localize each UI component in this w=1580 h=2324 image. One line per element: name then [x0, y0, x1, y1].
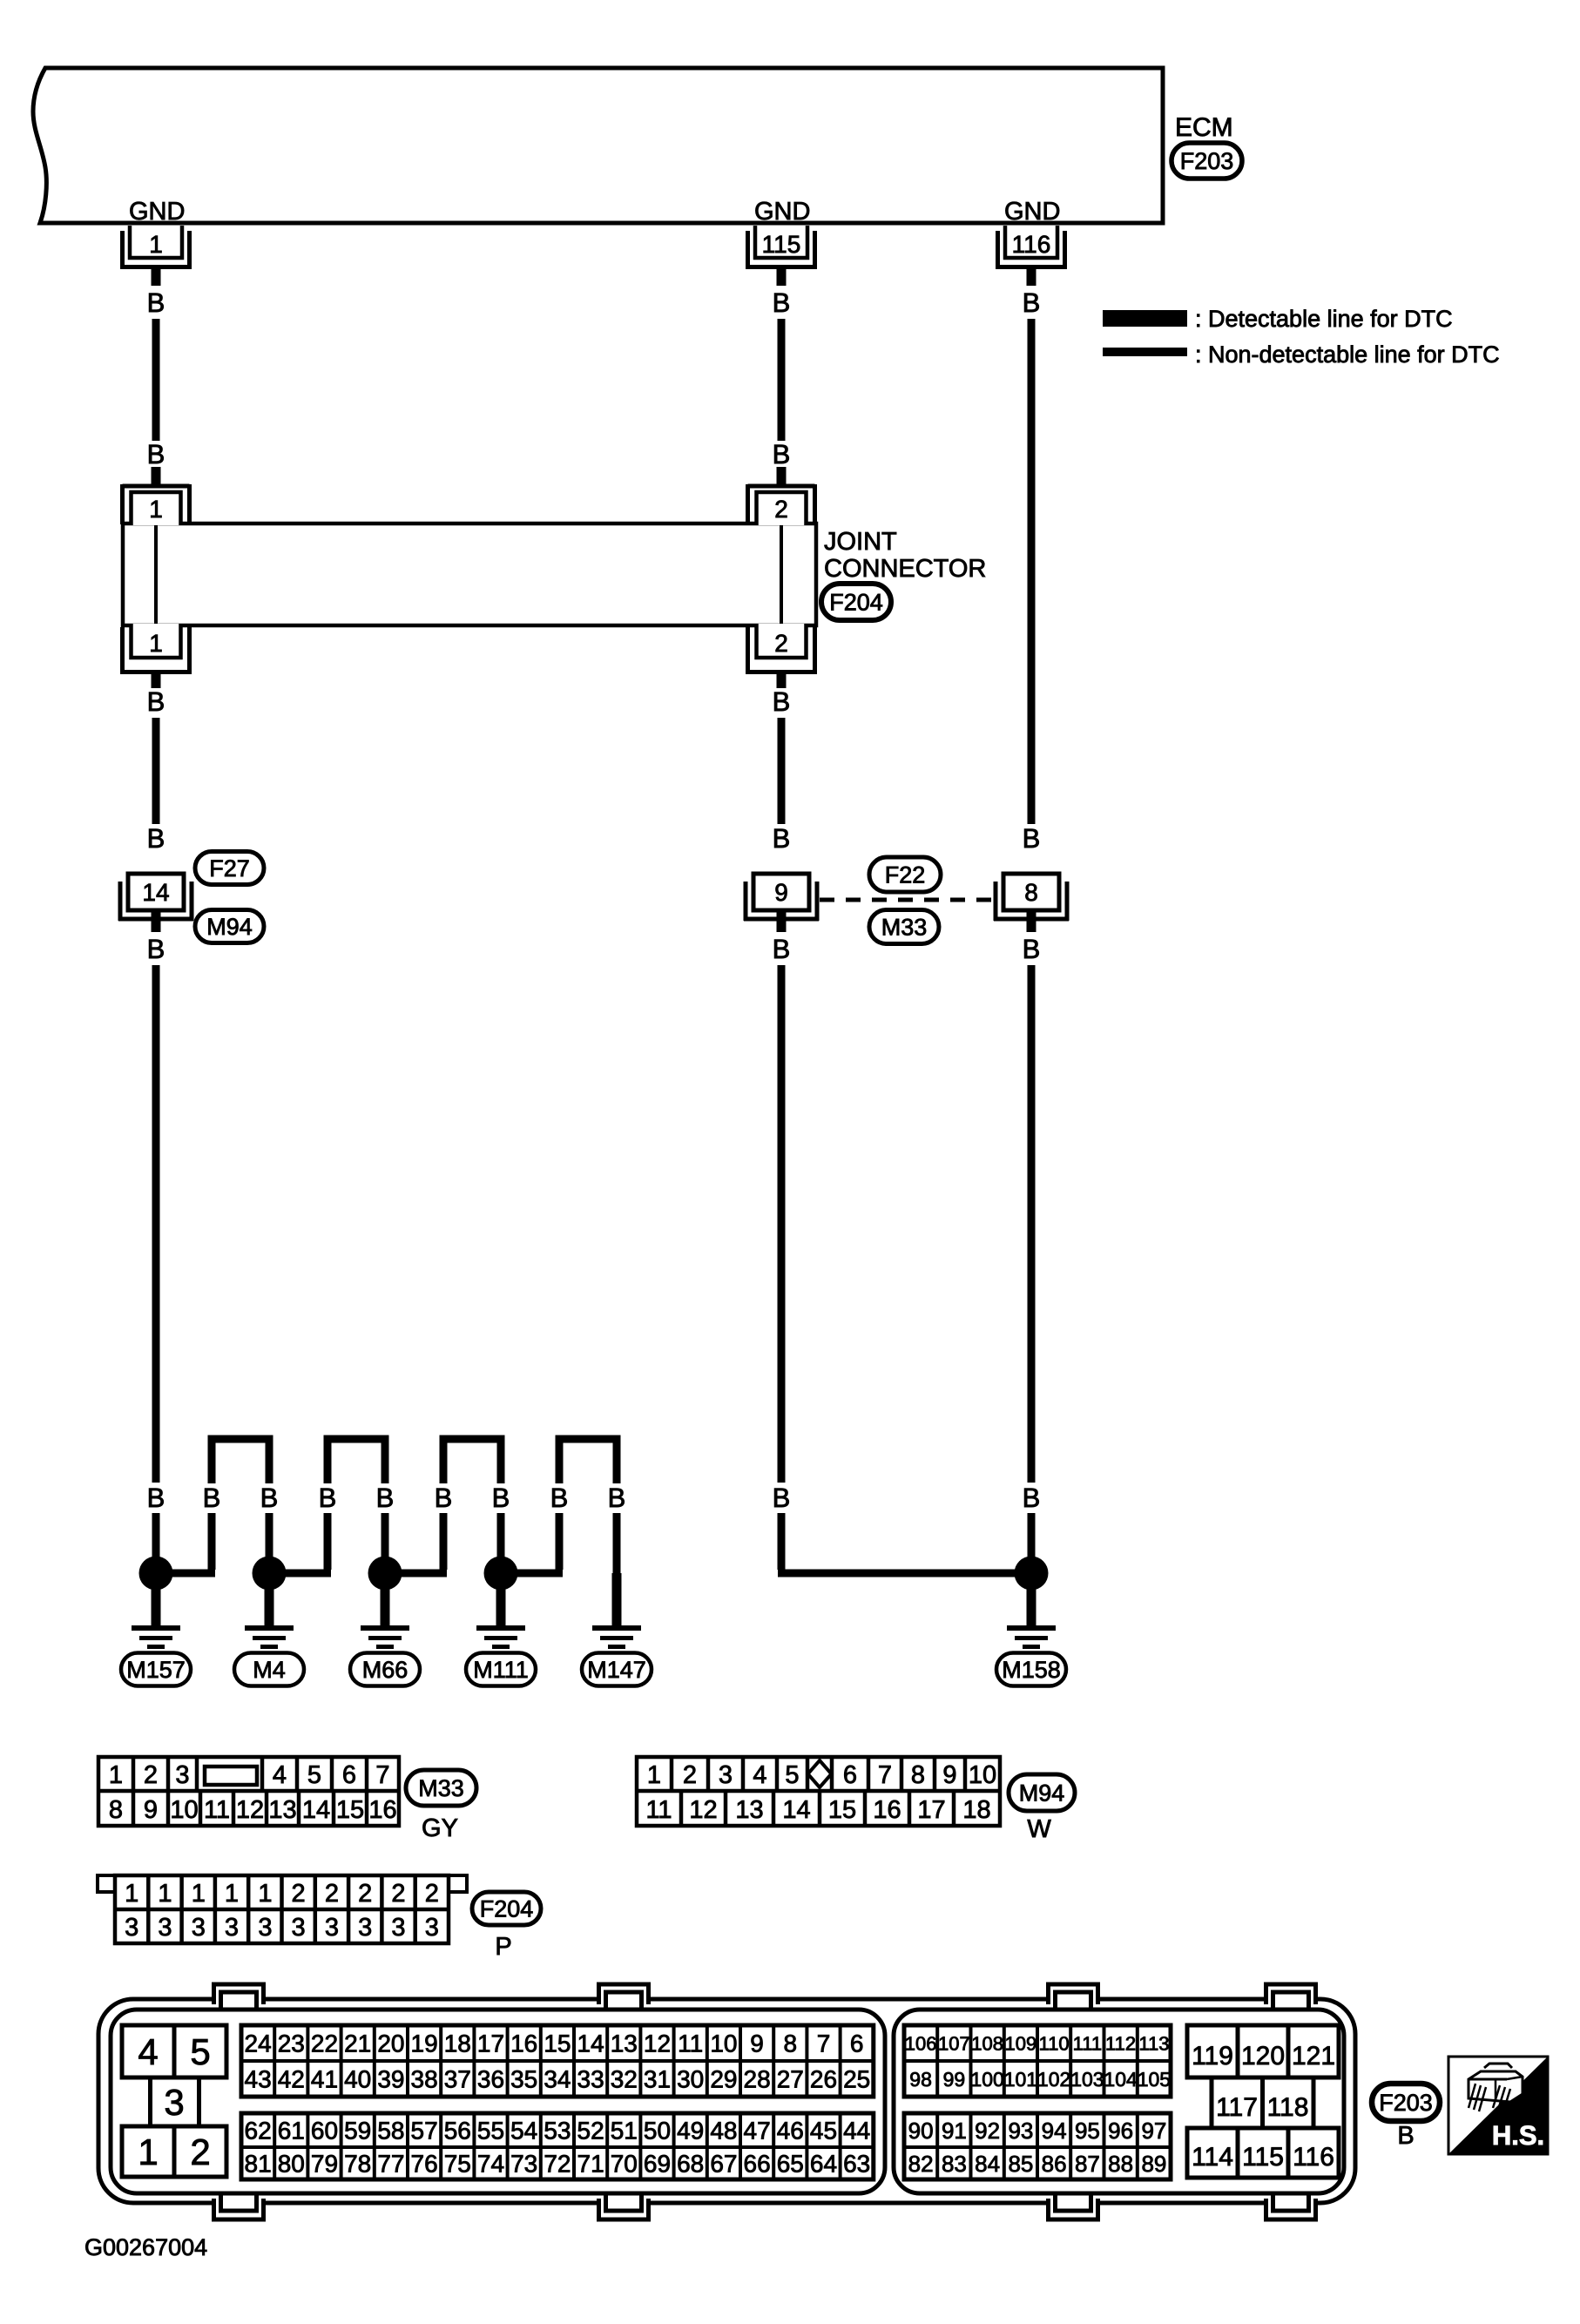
svg-text:B: B: [435, 1483, 453, 1513]
svg-text:17: 17: [917, 1796, 945, 1824]
svg-text:6: 6: [342, 1761, 356, 1789]
connector face view M94 (18-pin): [637, 1757, 1000, 1826]
svg-text:51: 51: [611, 2118, 638, 2145]
svg-text:2: 2: [425, 1880, 439, 1908]
junction node at ground M66: [368, 1557, 402, 1591]
svg-text:92: 92: [975, 2118, 1000, 2144]
svg-text:2: 2: [774, 630, 788, 657]
svg-text:9: 9: [144, 1796, 158, 1824]
svg-text:14: 14: [782, 1796, 810, 1824]
svg-text:33: 33: [577, 2066, 604, 2093]
svg-text:104: 104: [1104, 2068, 1138, 2091]
svg-text:114: 114: [1192, 2143, 1233, 2172]
svg-text:2: 2: [358, 1880, 372, 1908]
svg-text:P: P: [495, 1933, 511, 1961]
svg-text:102: 102: [1037, 2068, 1070, 2091]
F203 pin grid 82-97: [904, 2113, 1171, 2179]
svg-text:112: 112: [1105, 2032, 1136, 2054]
connector face view F203 (ECM, pictorial): [98, 1984, 1355, 2219]
svg-text:57: 57: [411, 2118, 438, 2145]
svg-text:1: 1: [149, 496, 163, 523]
ground connector label M111: [466, 1653, 536, 1686]
svg-text:3: 3: [158, 1914, 172, 1942]
svg-text:76: 76: [411, 2151, 438, 2178]
svg-text:2: 2: [683, 1761, 697, 1789]
ground M66: [361, 1573, 409, 1649]
wire segment (x=1184, ECM to connector F22 pin 8): [1028, 319, 1036, 824]
svg-text:73: 73: [510, 2151, 537, 2178]
svg-text:115: 115: [1242, 2143, 1284, 2172]
wire segment (x=179): [152, 718, 160, 824]
svg-text:10: 10: [170, 1796, 198, 1824]
svg-text:2: 2: [325, 1880, 339, 1908]
svg-text:15: 15: [336, 1796, 364, 1824]
svg-text:CONNECTOR: CONNECTOR: [824, 555, 986, 583]
svg-text:B: B: [773, 686, 791, 717]
svg-text:F203: F203: [1379, 2090, 1433, 2116]
wire segment to ground M111: [497, 1513, 505, 1574]
wire segment L-join to M4 node: [269, 1513, 331, 1573]
F203 pins 114-121 block: [1187, 2025, 1339, 2178]
svg-text:39: 39: [377, 2066, 404, 2093]
wire jumper staple 1: [212, 1439, 269, 1483]
svg-text:40: 40: [344, 2066, 371, 2093]
svg-text:98: 98: [909, 2068, 932, 2091]
svg-text:9: 9: [750, 2030, 764, 2057]
ground connector label M66: [350, 1653, 420, 1686]
svg-text:F22: F22: [885, 862, 926, 888]
svg-text:97: 97: [1141, 2118, 1166, 2144]
svg-text:3: 3: [358, 1914, 372, 1942]
svg-text:B: B: [773, 823, 791, 854]
svg-text:59: 59: [344, 2118, 371, 2145]
junction node at ground M158: [1015, 1557, 1049, 1591]
svg-text:M33: M33: [418, 1775, 464, 1801]
svg-text:121: 121: [1292, 2042, 1335, 2071]
ground connector label M158: [996, 1653, 1066, 1686]
svg-text:31: 31: [644, 2066, 671, 2093]
svg-text:H.S.: H.S.: [1492, 2120, 1544, 2151]
svg-text:115: 115: [762, 231, 801, 258]
svg-text:32: 32: [611, 2066, 638, 2093]
svg-text:28: 28: [744, 2066, 771, 2093]
svg-text:5: 5: [190, 2031, 210, 2072]
wire segment long (x=1184): [1028, 965, 1036, 1483]
svg-text:21: 21: [344, 2030, 371, 2057]
svg-text:3: 3: [175, 1761, 189, 1789]
wire segment L-join to M157 node: [156, 1513, 215, 1573]
dashed harness link F22/M33: [820, 898, 995, 902]
svg-text:10: 10: [710, 2030, 737, 2057]
joint connector F204 body: [123, 524, 816, 625]
F203 pins 1-5 block: [122, 2025, 226, 2177]
svg-text:B: B: [492, 1483, 510, 1513]
svg-text:M158: M158: [1002, 1657, 1061, 1683]
ground connector label M147: [582, 1653, 652, 1686]
svg-text:65: 65: [777, 2151, 804, 2178]
wire jumper staple 2: [327, 1439, 385, 1483]
wire segment to ground M147: [613, 1513, 621, 1628]
svg-text:103: 103: [1070, 2068, 1104, 2091]
svg-text:19: 19: [411, 2030, 438, 2057]
svg-text:7: 7: [878, 1761, 892, 1789]
ground connector label M157: [121, 1653, 191, 1686]
wire jumper staple 3: [443, 1439, 501, 1483]
svg-text:44: 44: [843, 2118, 870, 2145]
svg-text:3: 3: [325, 1914, 339, 1942]
svg-text:82: 82: [908, 2151, 934, 2177]
svg-text:53: 53: [544, 2118, 571, 2145]
svg-text:B: B: [319, 1483, 337, 1513]
svg-text:3: 3: [391, 1914, 405, 1942]
svg-text:110: 110: [1039, 2032, 1070, 2054]
svg-text:B: B: [773, 287, 791, 318]
svg-text:60: 60: [311, 2118, 338, 2145]
svg-text:B: B: [1023, 934, 1041, 964]
svg-text:1: 1: [158, 1880, 172, 1908]
ground M111: [476, 1573, 525, 1649]
svg-text:46: 46: [777, 2118, 804, 2145]
ECM box F203: [33, 68, 1233, 223]
svg-text:F204: F204: [829, 590, 883, 616]
svg-text:83: 83: [942, 2151, 967, 2177]
svg-text:67: 67: [710, 2151, 737, 2178]
svg-text:27: 27: [777, 2066, 804, 2093]
junction node at ground M157: [139, 1557, 173, 1591]
wire segment to ground M157: [152, 1513, 160, 1574]
svg-text:3: 3: [125, 1914, 138, 1942]
svg-text:2: 2: [292, 1880, 306, 1908]
svg-text:B: B: [550, 1483, 569, 1513]
connector label F203 (face): [1372, 2084, 1440, 2121]
svg-text:117: 117: [1216, 2093, 1258, 2122]
svg-text:1: 1: [225, 1880, 239, 1908]
connector label F22: [869, 857, 941, 892]
wire segment long (x=897): [778, 965, 786, 1483]
svg-text:13: 13: [611, 2030, 638, 2057]
svg-text:6: 6: [843, 1761, 857, 1789]
F203 pin grid 98-113: [904, 2025, 1171, 2097]
svg-text:13: 13: [735, 1796, 763, 1824]
svg-text:18: 18: [444, 2030, 471, 2057]
svg-text:58: 58: [377, 2118, 404, 2145]
svg-text:61: 61: [278, 2118, 305, 2145]
F203 pin grid 44-81: [241, 2113, 874, 2179]
svg-text:M111: M111: [473, 1657, 529, 1683]
ECM pin 116 (GND): [996, 198, 1067, 286]
svg-text:15: 15: [544, 2030, 571, 2057]
F203 pin grid 6-43: [241, 2025, 874, 2097]
svg-text:11: 11: [204, 1796, 230, 1824]
svg-text:B: B: [147, 686, 165, 717]
svg-text:37: 37: [444, 2066, 471, 2093]
svg-text:M4: M4: [253, 1657, 286, 1683]
svg-text:96: 96: [1108, 2118, 1133, 2144]
svg-text:109: 109: [1005, 2032, 1037, 2054]
connector label F27: [195, 852, 264, 885]
svg-text:94: 94: [1042, 2118, 1067, 2144]
svg-text:1: 1: [149, 630, 163, 657]
svg-text:B: B: [260, 1483, 279, 1513]
svg-text:26: 26: [810, 2066, 837, 2093]
svg-text:85: 85: [1008, 2151, 1033, 2177]
inline connector pin 14: [118, 874, 193, 932]
svg-text:1: 1: [647, 1761, 661, 1789]
svg-text:15: 15: [828, 1796, 856, 1824]
svg-text:14: 14: [577, 2030, 604, 2057]
svg-text:6: 6: [850, 2030, 864, 2057]
svg-text:75: 75: [444, 2151, 471, 2178]
connector label M94 (face): [1009, 1774, 1075, 1811]
svg-text:119: 119: [1192, 2042, 1233, 2071]
connector label M94: [195, 910, 264, 943]
svg-text:1: 1: [138, 2131, 158, 2172]
ECM pin 115 (GND): [746, 198, 817, 286]
connector label M33 (face): [406, 1770, 476, 1806]
svg-text:41: 41: [311, 2066, 338, 2093]
svg-text:81: 81: [245, 2151, 272, 2178]
svg-text:91: 91: [942, 2118, 967, 2144]
svg-text:M157: M157: [126, 1657, 186, 1683]
svg-text:3: 3: [192, 1914, 206, 1942]
svg-text:12: 12: [236, 1796, 264, 1824]
svg-text:42: 42: [278, 2066, 305, 2093]
wire segment long (x=179): [152, 965, 160, 1483]
svg-text:1: 1: [125, 1880, 138, 1908]
svg-text:11: 11: [645, 1796, 672, 1824]
svg-text:1: 1: [109, 1761, 123, 1789]
wire jumper staple 4: [559, 1439, 617, 1483]
svg-text:16: 16: [873, 1796, 901, 1824]
svg-text:18: 18: [962, 1796, 990, 1824]
svg-text:B: B: [376, 1483, 395, 1513]
wire segment (x=897, ECM to joint connector): [778, 319, 786, 441]
joint connector top pin 1: [123, 467, 190, 525]
svg-text:89: 89: [1141, 2151, 1166, 2177]
svg-text:3: 3: [425, 1914, 439, 1942]
svg-text:3: 3: [164, 2082, 184, 2123]
svg-text:30: 30: [677, 2066, 704, 2093]
svg-text:84: 84: [975, 2151, 1000, 2177]
svg-text:34: 34: [544, 2066, 571, 2093]
svg-text:4: 4: [273, 1761, 287, 1789]
svg-text:1: 1: [192, 1880, 206, 1908]
connector label F204 (joint connector): [821, 584, 891, 620]
svg-text:24: 24: [245, 2030, 272, 2057]
svg-text:B: B: [147, 823, 165, 854]
svg-text:3: 3: [719, 1761, 733, 1789]
svg-text:B: B: [147, 934, 165, 964]
svg-text:8: 8: [911, 1761, 925, 1789]
legend: non-detectable line sample: [1103, 341, 1500, 368]
svg-text:2: 2: [391, 1880, 405, 1908]
svg-text:1: 1: [258, 1880, 272, 1908]
svg-text:43: 43: [245, 2066, 272, 2093]
svg-text:106: 106: [905, 2032, 937, 2054]
svg-text:B: B: [773, 934, 791, 964]
svg-text:113: 113: [1138, 2032, 1169, 2054]
svg-text:17: 17: [477, 2030, 504, 2057]
svg-text:14: 14: [142, 879, 169, 906]
svg-text:JOINT: JOINT: [824, 528, 897, 556]
svg-text:72: 72: [544, 2151, 571, 2178]
svg-text:B: B: [608, 1483, 626, 1513]
svg-text:95: 95: [1075, 2118, 1100, 2144]
svg-text:116: 116: [1293, 2143, 1334, 2172]
svg-text:B: B: [1023, 287, 1041, 318]
svg-text:54: 54: [510, 2118, 537, 2145]
svg-text:: Non-detectable line for DTC: : Non-detectable line for DTC: [1195, 341, 1500, 368]
wire segment from pin 9 to M158 node: [778, 1513, 1031, 1573]
svg-text:B: B: [1397, 2122, 1414, 2150]
svg-text:90: 90: [908, 2118, 934, 2144]
svg-text:23: 23: [278, 2030, 305, 2057]
svg-text:29: 29: [710, 2066, 737, 2093]
svg-text:F203: F203: [1180, 148, 1234, 174]
svg-text:64: 64: [810, 2151, 837, 2178]
svg-text:12: 12: [644, 2030, 671, 2057]
svg-text:B: B: [147, 439, 165, 470]
svg-text:55: 55: [477, 2118, 504, 2145]
svg-text:M94: M94: [206, 914, 253, 940]
svg-text:B: B: [1023, 1483, 1041, 1513]
svg-text:7: 7: [375, 1761, 389, 1789]
svg-text:70: 70: [611, 2151, 638, 2178]
svg-text:86: 86: [1042, 2151, 1067, 2177]
svg-text:9: 9: [942, 1761, 956, 1789]
ECM pin 1 (GND): [120, 198, 192, 286]
joint connector top pin 2: [748, 467, 815, 525]
svg-text:116: 116: [1012, 231, 1051, 258]
svg-text:68: 68: [677, 2151, 704, 2178]
svg-text:GND: GND: [129, 198, 185, 226]
svg-text:B: B: [147, 287, 165, 318]
svg-text:9: 9: [774, 879, 788, 906]
svg-text:105: 105: [1138, 2068, 1171, 2091]
svg-text:62: 62: [245, 2118, 272, 2145]
joint connector bottom pin 2: [746, 624, 817, 688]
svg-text:B: B: [203, 1483, 221, 1513]
svg-text:45: 45: [810, 2118, 837, 2145]
svg-text:111: 111: [1073, 2032, 1102, 2054]
H.S. harness-side view icon: [1448, 2057, 1548, 2154]
svg-text:118: 118: [1267, 2093, 1309, 2122]
svg-text:87: 87: [1075, 2151, 1100, 2177]
svg-text:W: W: [1027, 1815, 1051, 1843]
ground M147: [592, 1573, 641, 1649]
svg-text:3: 3: [258, 1914, 272, 1942]
svg-text:108: 108: [971, 2032, 1003, 2054]
svg-text:100: 100: [970, 2068, 1003, 2091]
ground M157: [132, 1573, 180, 1649]
svg-text:69: 69: [644, 2151, 671, 2178]
svg-text:10: 10: [969, 1761, 996, 1789]
svg-text:49: 49: [677, 2118, 704, 2145]
svg-text:38: 38: [411, 2066, 438, 2093]
label JOINT CONNECTOR: [824, 528, 986, 583]
junction node at ground M111: [484, 1557, 518, 1591]
svg-text:13: 13: [268, 1796, 296, 1824]
svg-text:77: 77: [377, 2151, 404, 2178]
wire segment L-join to M66 node: [385, 1513, 447, 1573]
svg-text:GND: GND: [754, 198, 810, 226]
wire segment to ground M158: [1028, 1513, 1036, 1574]
svg-text:14: 14: [302, 1796, 330, 1824]
svg-text:35: 35: [510, 2066, 537, 2093]
junction node at ground M4: [253, 1557, 287, 1591]
svg-text:11: 11: [678, 2030, 703, 2057]
svg-text:63: 63: [843, 2151, 870, 2178]
svg-text:66: 66: [744, 2151, 771, 2178]
svg-text:48: 48: [710, 2118, 737, 2145]
svg-text:8: 8: [784, 2030, 798, 2057]
svg-text:M33: M33: [881, 915, 928, 941]
svg-text:4: 4: [138, 2031, 158, 2072]
svg-text:20: 20: [377, 2030, 404, 2057]
ground M158: [1007, 1573, 1056, 1649]
svg-text:74: 74: [477, 2151, 504, 2178]
svg-text:5: 5: [307, 1761, 321, 1789]
ground connector label M4: [234, 1653, 304, 1686]
svg-text:M147: M147: [587, 1657, 646, 1683]
ground M4: [245, 1573, 294, 1649]
wire segment (x=179, ECM to joint connector): [152, 319, 160, 441]
inline connector pin 9: [744, 874, 819, 932]
connector face view M33 (16-pin): [98, 1757, 399, 1826]
svg-text:2: 2: [190, 2131, 210, 2172]
legend: detectable line sample: [1103, 306, 1453, 332]
svg-text:120: 120: [1241, 2042, 1285, 2071]
svg-text:4: 4: [753, 1761, 766, 1789]
wire segment to ground M4: [266, 1513, 273, 1574]
joint connector bottom pin 1: [120, 624, 192, 688]
svg-text:25: 25: [843, 2066, 870, 2093]
svg-text:99: 99: [943, 2068, 966, 2091]
svg-text:5: 5: [785, 1761, 799, 1789]
wire segment L-join to M111 node: [501, 1513, 563, 1573]
svg-text:47: 47: [744, 2118, 771, 2145]
wire segment to ground M66: [381, 1513, 389, 1574]
connector label F203 (ECM): [1171, 143, 1242, 179]
svg-text:2: 2: [144, 1761, 158, 1789]
svg-text:50: 50: [644, 2118, 671, 2145]
svg-text:79: 79: [311, 2151, 338, 2178]
svg-text:36: 36: [477, 2066, 504, 2093]
svg-text:M66: M66: [362, 1657, 409, 1683]
svg-text:2: 2: [774, 496, 788, 523]
svg-text:B: B: [147, 1483, 165, 1513]
svg-text:3: 3: [225, 1914, 239, 1942]
inline connector pin 8: [994, 874, 1069, 932]
svg-text:56: 56: [444, 2118, 471, 2145]
svg-text:93: 93: [1008, 2118, 1033, 2144]
svg-text:78: 78: [344, 2151, 371, 2178]
svg-text:101: 101: [1004, 2068, 1037, 2091]
connector label M33: [869, 910, 939, 944]
svg-text:71: 71: [577, 2151, 604, 2178]
svg-text:B: B: [773, 1483, 791, 1513]
svg-text:16: 16: [510, 2030, 537, 2057]
svg-text:8: 8: [1024, 879, 1038, 906]
svg-text:107: 107: [938, 2032, 970, 2054]
wire segment (x=897): [778, 718, 786, 824]
svg-text:GND: GND: [1004, 198, 1060, 226]
connector face view F204 (joint connector): [98, 1875, 467, 1943]
svg-text:16: 16: [368, 1796, 396, 1824]
svg-text:1: 1: [149, 231, 163, 258]
svg-text:M94: M94: [1019, 1780, 1065, 1807]
svg-text:: Detectable line for DTC: : Detectable line for DTC: [1195, 306, 1453, 332]
